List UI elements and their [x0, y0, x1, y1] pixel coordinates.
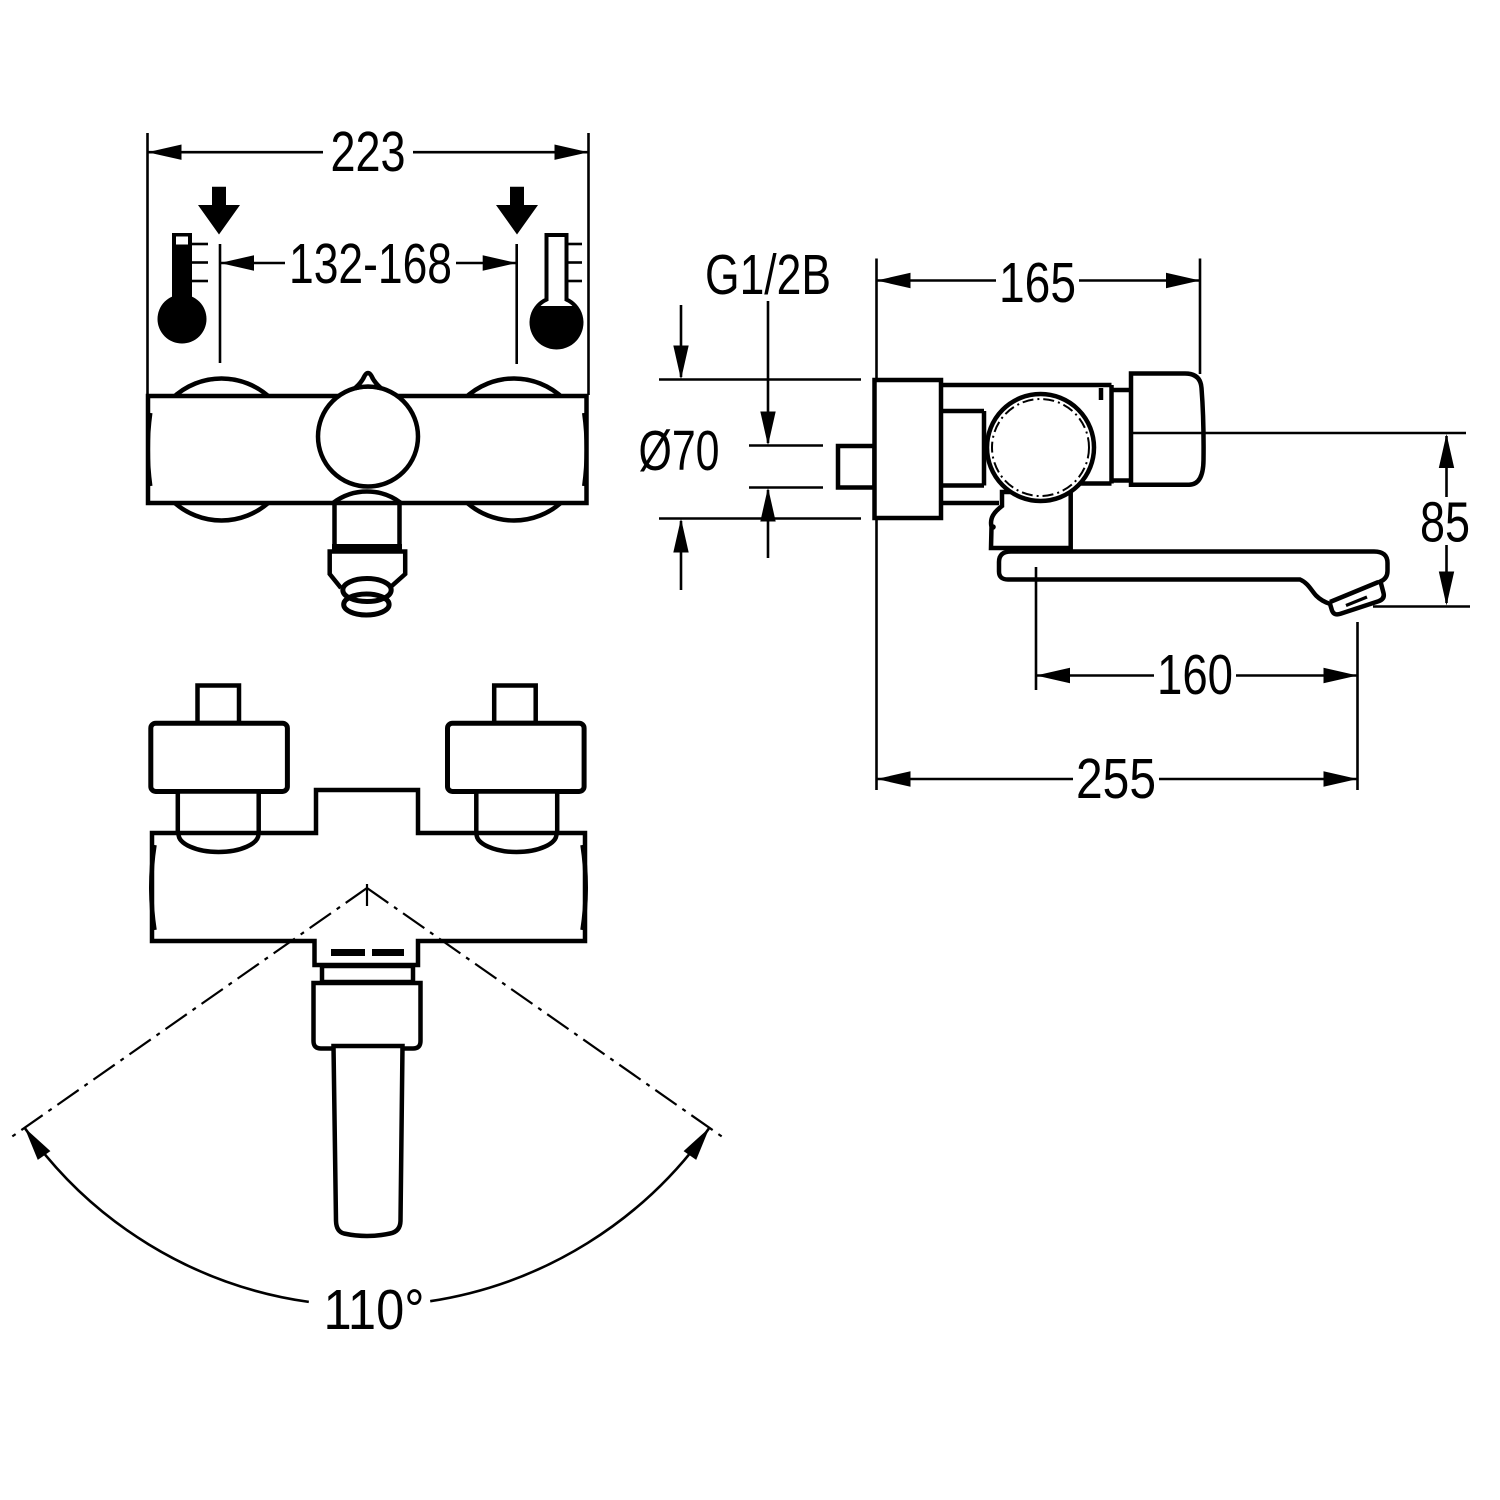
110 degree arc left segment [25, 1128, 309, 1302]
160/255 shared right extension line [1356, 622, 1359, 790]
spout collar (front) [330, 552, 406, 589]
inlet stub (side view) [838, 446, 875, 488]
spout neck (front) [332, 503, 337, 546]
aerator outlet ring (front) [344, 594, 389, 615]
svg-text:G1/2B: G1/2B [705, 243, 831, 307]
support block knot [990, 524, 996, 530]
spout (side view) [999, 552, 1388, 615]
barrel right edge [1109, 385, 1114, 484]
left union nut (plan) [151, 723, 288, 791]
G1/2 extension line bottom [749, 486, 823, 489]
svg-text:85: 85 [1420, 491, 1470, 555]
160 left extension line [1035, 567, 1038, 690]
svg-text:132-168: 132-168 [289, 232, 452, 296]
svg-text:223: 223 [331, 120, 406, 184]
spout tube (plan) [334, 1046, 403, 1236]
extension line left (223) [146, 133, 149, 395]
hidden edge dashes [331, 949, 365, 956]
spout collar ring (plan) [322, 966, 413, 982]
svg-text:Ø70: Ø70 [639, 419, 720, 483]
extension line left (132-168) [219, 244, 222, 363]
dial inner circle [992, 399, 1089, 496]
left connector dome arc (plan) [179, 834, 259, 852]
svg-text:165: 165 [999, 251, 1076, 315]
control knob circle (front) [318, 387, 418, 487]
G1/2 extension line top [749, 444, 823, 447]
dimension line 132-168 [220, 262, 285, 265]
hot-water inlet marker arrow (left, filled) [198, 187, 240, 235]
right neck bottom line [1112, 478, 1132, 483]
85 bottom extension line [1373, 605, 1470, 608]
knob top nub [355, 373, 381, 388]
110 degree arc right segment [430, 1128, 709, 1302]
cold-water inlet marker arrow (right, filled) [496, 187, 538, 235]
swivel axis dash-dot line left [10, 888, 367, 1138]
extension line right (132-168) [515, 244, 518, 364]
body left end cap arc [148, 413, 151, 486]
arc arrowhead right [684, 1128, 710, 1160]
dial housing left edge [982, 411, 987, 486]
arc arrowhead left [25, 1128, 51, 1160]
hot thermometer icon (filled) [158, 233, 209, 344]
neck top line [941, 409, 984, 414]
body outline (plan) [152, 790, 585, 965]
barrel top line [941, 383, 1112, 388]
svg-text:160: 160 [1157, 643, 1233, 707]
svg-text:255: 255 [1076, 747, 1156, 811]
wall flange (side view) [875, 380, 942, 518]
dimension line 165 [877, 279, 997, 282]
body right end cap arc (plan) [583, 845, 586, 930]
left escutcheon circle (behind body) [151, 379, 293, 521]
right connector dome arc (plan) [477, 834, 557, 852]
Ø70 extension line top [659, 378, 861, 381]
svg-text:110°: 110° [324, 1278, 425, 1342]
spout base block (plan) [314, 983, 421, 1049]
dimension line 223 [148, 151, 324, 154]
dial outer circle [987, 394, 1094, 501]
neck bottom line [941, 483, 984, 488]
extension line right (223) [587, 133, 590, 395]
vertex tick [366, 884, 368, 906]
Ø70 lower arrow [680, 521, 683, 590]
Ø70 extension line bottom [659, 517, 861, 520]
body right end cap arc [584, 413, 587, 486]
mixer body bar (front) [148, 396, 587, 503]
left connector (plan) [178, 792, 259, 835]
barrel bottom line (right of dial) [1040, 481, 1112, 486]
right inlet stub (plan) [494, 686, 536, 724]
swivel axis dash-dot line right [367, 888, 724, 1138]
body left end cap arc (plan) [151, 845, 154, 930]
right neck top line [1112, 388, 1132, 393]
handle knob (side view) [1131, 374, 1204, 485]
aerator upper ring (front) [343, 579, 391, 602]
G1/2B leader line with arrow [767, 301, 770, 443]
spout flange line (front) [332, 544, 402, 551]
lower tube line [941, 501, 999, 506]
dimension line 160 [1036, 674, 1154, 677]
left inlet stub (plan) [198, 686, 240, 724]
85 top extension line (through handle) [1129, 432, 1466, 435]
right union nut (plan) [448, 723, 585, 791]
cold thermometer icon (outline bulb filled) [531, 233, 582, 348]
right connector (plan) [476, 792, 557, 835]
spout outlet top edge [1330, 582, 1379, 602]
165 right extension line [1199, 259, 1202, 375]
spout support block [991, 492, 1071, 548]
85 dimension line [1445, 436, 1448, 497]
right escutcheon circle (behind body) [443, 379, 585, 521]
Ø70 upper arrow [680, 305, 683, 377]
spout outlet hatch [1346, 597, 1367, 606]
spout dome arc (front) [333, 491, 401, 503]
barrel top tick [1099, 388, 1104, 400]
dimension line 255 [877, 778, 1074, 781]
165/255 shared left extension line [875, 259, 878, 379]
G1/2 lower arrow [767, 490, 770, 558]
